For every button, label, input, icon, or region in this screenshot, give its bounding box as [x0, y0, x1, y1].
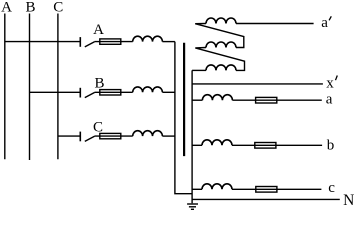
wire LA to bus — [162, 41, 175, 43]
winding W2 — [206, 42, 236, 48]
svg-text:a: a — [321, 15, 328, 31]
svg-text:B: B — [25, 0, 35, 15]
ground bar 2 — [189, 206, 196, 208]
phase line B — [29, 14, 31, 161]
fuse Fa box — [256, 97, 277, 103]
zigzag link 2 — [195, 48, 244, 71]
inductor La — [202, 95, 232, 101]
svg-text:N: N — [343, 192, 354, 209]
fuse FB box — [100, 90, 121, 95]
wire c left — [192, 188, 202, 190]
wire branch C — [58, 135, 80, 137]
zigzag link 1 — [195, 24, 244, 48]
wire a right — [232, 99, 321, 101]
fuse FA box — [100, 39, 121, 44]
inductor Lc — [202, 184, 232, 190]
fuse FC box — [100, 133, 121, 138]
switch SB contact — [79, 88, 81, 98]
svg-text:x: x — [326, 76, 334, 92]
primary bus — [175, 42, 192, 194]
switch SA blade — [85, 42, 95, 47]
wire b right — [232, 144, 322, 146]
wire SC to fuse — [95, 135, 133, 137]
switch SC blade — [85, 136, 95, 141]
wire c right — [232, 188, 321, 190]
wire N — [192, 198, 340, 200]
switch SC contact — [79, 132, 81, 142]
phase line C — [57, 14, 59, 160]
phase line A — [4, 14, 6, 160]
secondary bus — [191, 70, 193, 203]
svg-text:B: B — [94, 75, 104, 91]
svg-text:b: b — [327, 138, 335, 154]
wire a left — [192, 99, 202, 101]
inductor Lb — [202, 140, 232, 146]
inductor LB — [133, 87, 163, 92]
wire SA to fuse — [95, 41, 133, 43]
ground bar 3 — [191, 208, 194, 210]
wire W1 to a' — [236, 23, 314, 25]
fuse Fc box — [256, 187, 277, 193]
winding W1 — [206, 18, 236, 23]
ground bar 1 — [187, 203, 198, 205]
wire x' — [192, 83, 323, 85]
wire branch A — [5, 41, 81, 43]
svg-text:c: c — [328, 180, 335, 196]
wire LC to bus — [162, 135, 175, 137]
wire branch B — [30, 91, 81, 93]
wire W3 to bus — [192, 69, 206, 71]
inductor LA — [133, 36, 163, 41]
wire LB to bus — [162, 91, 175, 93]
svg-text:a: a — [326, 92, 333, 108]
svg-text:A: A — [1, 0, 12, 15]
inductor LC — [133, 131, 163, 136]
fuse Fb box — [255, 143, 276, 149]
svg-text:A: A — [93, 22, 104, 38]
wire SB to fuse — [95, 91, 133, 93]
transformer core — [183, 43, 185, 156]
wire b left — [192, 144, 202, 146]
switch SA contact — [79, 37, 81, 47]
switch SB blade — [85, 93, 95, 98]
winding W3 — [206, 65, 236, 71]
svg-text:C: C — [53, 0, 63, 15]
svg-text:C: C — [93, 120, 103, 136]
